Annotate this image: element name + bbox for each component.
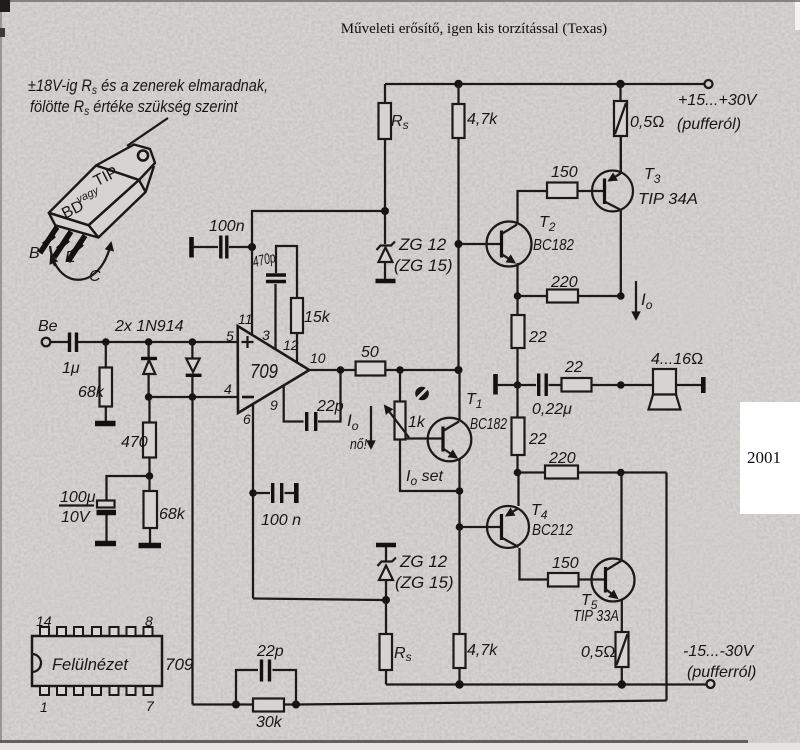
svg-text:TIP 33A: TIP 33A bbox=[573, 608, 619, 625]
node output/22p bbox=[337, 366, 345, 374]
capacitor 100u/10V electrolytic bbox=[97, 501, 115, 508]
resistor 68k (lower) bbox=[148, 476, 150, 491]
node T2 emitter / 220 bbox=[514, 292, 522, 300]
scan smudges bbox=[550, 240, 730, 360]
svg-text:(ZG 15): (ZG 15) bbox=[395, 573, 454, 592]
ground (68k lower) bbox=[139, 543, 162, 549]
svg-text:9: 9 bbox=[270, 397, 278, 413]
svg-text:15k: 15k bbox=[304, 309, 331, 326]
svg-text:(ZG 15): (ZG 15) bbox=[394, 256, 453, 275]
resistor Rs (lower) bbox=[385, 600, 387, 634]
svg-text:(pufferól): (pufferól) bbox=[677, 116, 741, 133]
svg-text:220: 220 bbox=[548, 450, 576, 467]
terminal bar (100n input cap) bbox=[189, 237, 194, 258]
wire op-amp pin 3 bbox=[274, 284, 276, 349]
svg-text:14: 14 bbox=[36, 613, 52, 629]
node D1 bottom bbox=[145, 393, 153, 401]
node 50/1k bbox=[396, 366, 404, 374]
node feedback 30k left bbox=[232, 701, 240, 709]
package lead B bbox=[40, 227, 57, 253]
wire 50 to T1 collector node bbox=[385, 369, 458, 371]
wire feedback bottom run bbox=[296, 701, 667, 705]
svg-text:fölötte Rs értéke szükség szer: fölötte Rs értéke szükség szerint bbox=[30, 98, 238, 118]
wire 150 to T3 base bbox=[578, 190, 604, 192]
svg-text:100n: 100n bbox=[209, 218, 245, 235]
svg-text:22p: 22p bbox=[256, 643, 284, 660]
terminal -supply bbox=[707, 680, 715, 688]
transistor T1 BC182 bbox=[428, 418, 472, 462]
svg-text:22: 22 bbox=[528, 431, 547, 448]
ground (68k input) bbox=[95, 421, 116, 427]
svg-text:Felülnézet: Felülnézet bbox=[52, 655, 129, 674]
node pin6/100n lower bbox=[249, 489, 257, 497]
wire node to 100u bbox=[107, 476, 150, 500]
arc arrow C to collector tab bbox=[50, 243, 111, 280]
pointer line from note to package bbox=[127, 118, 168, 146]
svg-text:10V: 10V bbox=[61, 509, 91, 526]
svg-text:220: 220 bbox=[550, 274, 578, 291]
resistor 68k (input) bbox=[105, 342, 107, 368]
resistor 4,7k (upper) bbox=[457, 84, 459, 104]
white patch with 2001 bbox=[740, 402, 800, 514]
resistor 22 (lower vertical) bbox=[516, 385, 518, 418]
wire pot to T1 base bbox=[406, 437, 442, 439]
svg-text:BC182: BC182 bbox=[470, 416, 507, 433]
transistor T4 BC212 bbox=[517, 473, 519, 507]
svg-text:22: 22 bbox=[528, 329, 547, 346]
zener ZG12 (upper) bbox=[377, 242, 396, 251]
node lower zener / pin6 wire bbox=[382, 596, 390, 604]
resistor 4,7k (lower) bbox=[458, 527, 460, 634]
resistor 0,5 ohm (upper, with diagonal) bbox=[619, 84, 621, 101]
transistor T3 TIP34A bbox=[592, 171, 633, 212]
svg-text:0,22μ: 0,22μ bbox=[532, 401, 572, 418]
node T1 emitter / T4 base bbox=[456, 523, 464, 531]
node rail/0,5 lower bbox=[618, 680, 626, 688]
svg-text:0,5Ω: 0,5Ω bbox=[630, 114, 665, 131]
resistor 220 (upper) bbox=[518, 295, 548, 297]
capacitor 0,22u bbox=[518, 384, 537, 386]
svg-text:50: 50 bbox=[361, 344, 379, 361]
svg-text:68k: 68k bbox=[78, 384, 105, 401]
svg-text:E: E bbox=[65, 249, 76, 266]
svg-text:4...16Ω: 4...16Ω bbox=[651, 351, 703, 368]
svg-text:0,5Ω: 0,5Ω bbox=[581, 644, 616, 661]
pot wiper arrow bbox=[385, 406, 409, 438]
note text line 1 bbox=[28, 77, 268, 97]
terminal bar (0,22u left) bbox=[493, 374, 498, 395]
node 220 lower / T5 column bbox=[617, 469, 625, 477]
node T1 emitter / pot bbox=[456, 487, 464, 495]
wire 470p to 15k bracket bbox=[276, 246, 297, 298]
top supply rail bbox=[385, 83, 704, 85]
note text line 2 bbox=[30, 98, 238, 118]
resistor 50 bbox=[356, 362, 386, 376]
svg-text:68k: 68k bbox=[159, 506, 186, 523]
wire 22p to output node bbox=[318, 370, 341, 422]
transistor T2 BC182 bbox=[459, 243, 501, 245]
svg-text:150: 150 bbox=[551, 164, 578, 181]
svg-text:150: 150 bbox=[552, 555, 579, 572]
package lead middle bbox=[54, 232, 71, 258]
svg-text:6: 6 bbox=[243, 411, 251, 427]
svg-text:B: B bbox=[29, 245, 40, 262]
svg-text:ZG 12: ZG 12 bbox=[398, 235, 447, 254]
wire + input line bbox=[78, 341, 238, 343]
svg-text:100 n: 100 n bbox=[261, 512, 301, 529]
scan border artifacts bbox=[0, 0, 800, 2]
capacitor 100n (upper) bbox=[193, 246, 218, 248]
node D2 bottom bbox=[189, 393, 197, 401]
svg-text:Be: Be bbox=[38, 318, 58, 335]
node input/68k bbox=[102, 338, 110, 346]
capacitor 100n (lower) bbox=[253, 492, 270, 494]
wire Be to C1 bbox=[51, 341, 69, 343]
potentiometer 1k bbox=[399, 370, 401, 402]
resistor 22 (horizontal) bbox=[549, 384, 562, 386]
svg-text:1μ: 1μ bbox=[62, 360, 80, 377]
svg-text:4,7k: 4,7k bbox=[467, 642, 498, 659]
svg-text:100μ: 100μ bbox=[60, 489, 96, 506]
terminal bar (speaker) bbox=[701, 377, 706, 393]
package body front face bbox=[49, 213, 99, 238]
resistor 30k bbox=[253, 699, 284, 712]
svg-text:1k: 1k bbox=[408, 414, 426, 431]
node feedback 30k right bbox=[292, 701, 300, 709]
transistor package drawing TIP/BD (pictorial) bbox=[49, 145, 155, 238]
capacitor 22p (feedback) bbox=[236, 670, 258, 705]
wire op-amp pin 9 to 22p bbox=[284, 386, 304, 422]
svg-text:(pufferról): (pufferról) bbox=[687, 664, 756, 681]
svg-text:nő!: nő! bbox=[350, 436, 368, 453]
zener ZG12 (lower) bbox=[376, 543, 396, 548]
svg-text:-15...-30V: -15...-30V bbox=[683, 643, 755, 660]
svg-text:11: 11 bbox=[238, 311, 253, 327]
bottom supply rail bbox=[386, 683, 706, 685]
diode D2 (1N914, cathode down) bbox=[191, 342, 193, 358]
wire op-amp pin 6 bbox=[252, 404, 254, 599]
node diode D1 top bbox=[145, 338, 153, 346]
resistor 150 (lower) bbox=[548, 573, 579, 587]
svg-text:Műveleti erősítő, igen kis tor: Műveleti erősítő, igen kis torzítással (… bbox=[341, 21, 607, 37]
package mounting tab bbox=[96, 145, 155, 181]
node Rs / pin11 wire bbox=[381, 207, 389, 215]
resistor 150 (upper) bbox=[547, 183, 578, 199]
capacitor 22p (op-amp comp) bbox=[307, 412, 316, 431]
svg-text:709: 709 bbox=[165, 655, 194, 674]
node rail/4,7k lower bbox=[455, 680, 463, 688]
wire op-amp output bbox=[309, 369, 355, 371]
terminal bar (upper zener) bbox=[376, 279, 396, 284]
svg-text:30k: 30k bbox=[256, 714, 283, 731]
ground (100u) bbox=[95, 541, 116, 547]
terminal bar (100n lower) bbox=[294, 483, 299, 503]
wire op-amp pin 11 bbox=[251, 247, 253, 335]
wire - input line bbox=[149, 396, 238, 398]
svg-text:BC212: BC212 bbox=[532, 522, 573, 539]
svg-text:BC182: BC182 bbox=[533, 237, 574, 254]
svg-text:8: 8 bbox=[145, 613, 153, 629]
node T3 collector / 220 bbox=[617, 292, 625, 300]
resistor 470 bbox=[148, 397, 150, 423]
svg-text:3: 3 bbox=[262, 327, 270, 343]
svg-text:ZG 12: ZG 12 bbox=[399, 552, 448, 571]
resistor 15k bbox=[291, 298, 303, 333]
node diode D2 top bbox=[189, 338, 197, 346]
svg-text:2001: 2001 bbox=[747, 448, 781, 467]
wire op-amp pin 12 bbox=[296, 333, 298, 362]
IC package top view (Felulnezet) bbox=[32, 636, 162, 686]
resistor Rs (upper) bbox=[384, 84, 386, 103]
node 22/0,22u bbox=[514, 381, 522, 389]
svg-text:4,7k: 4,7k bbox=[467, 111, 498, 128]
package body side face bbox=[89, 180, 146, 238]
resistor 22 (upper vertical) bbox=[516, 296, 518, 315]
node 470/68k/100u bbox=[146, 472, 154, 480]
wire feedback left vertical to inverting input bbox=[191, 397, 193, 705]
svg-text:5: 5 bbox=[226, 328, 234, 344]
package lead E bbox=[68, 236, 85, 262]
op-amp 709 bbox=[238, 326, 310, 413]
svg-text:1: 1 bbox=[40, 699, 48, 715]
node rail/0,5 bbox=[616, 80, 624, 88]
wire pin6 column to lower zener node bbox=[253, 599, 386, 601]
pot screw head bbox=[415, 387, 429, 401]
diode D1 (1N914, cathode up) bbox=[147, 342, 149, 357]
svg-text:10: 10 bbox=[310, 350, 326, 366]
node rail/4,7k bbox=[454, 80, 462, 88]
svg-text:22: 22 bbox=[564, 359, 583, 376]
terminal +supply bbox=[705, 80, 713, 88]
tab hole bbox=[138, 151, 148, 161]
svg-text:709: 709 bbox=[250, 361, 278, 383]
package body top face bbox=[49, 166, 139, 226]
package pins bottom row bbox=[40, 686, 153, 695]
wire feedback right vertical bbox=[665, 473, 667, 701]
speaker 4...16 ohm bbox=[653, 369, 676, 395]
resistor 220 (lower) bbox=[518, 471, 546, 473]
package pins top row bbox=[40, 627, 153, 636]
wire node up and right to Rs/zener junction bbox=[252, 211, 385, 247]
resistor 0,5 ohm (lower, with diagonal) bbox=[616, 632, 629, 667]
svg-text:TIP 34A: TIP 34A bbox=[638, 191, 698, 208]
svg-text:7: 7 bbox=[146, 698, 155, 714]
node 22 / 220 lower bbox=[514, 469, 522, 477]
node speaker line bbox=[617, 381, 625, 389]
node 4,7k / T2 base bbox=[455, 240, 463, 248]
svg-text:470: 470 bbox=[121, 434, 148, 451]
svg-text:4: 4 bbox=[224, 381, 232, 397]
node output/4,7k/T1 collector bbox=[455, 366, 463, 374]
node pin11/100n bbox=[248, 243, 256, 251]
capacitor 470p bbox=[266, 275, 286, 282]
transistor T5 TIP33A bbox=[592, 559, 635, 602]
svg-text:2x 1N914: 2x 1N914 bbox=[114, 318, 184, 335]
svg-text:+15...+30V: +15...+30V bbox=[678, 92, 758, 109]
capacitor 1u bbox=[70, 333, 77, 353]
svg-text:±18V-ig Rs és a zenerek elmar: ±18V-ig Rs és a zenerek elmaradnak, bbox=[28, 77, 268, 97]
